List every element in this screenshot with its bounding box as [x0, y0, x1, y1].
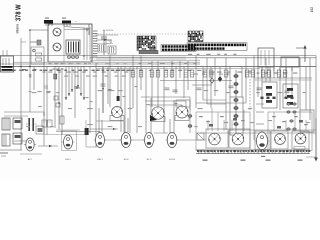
svg-text:378 W: 378 W — [13, 4, 22, 21]
svg-text:Minerva: Minerva — [15, 24, 19, 34]
svg-text:0,1 4700 1k: 0,1 4700 1k — [103, 30, 113, 32]
svg-text:ECH: ECH — [124, 159, 129, 161]
svg-text:ECH3: ECH3 — [169, 159, 176, 161]
svg-text:EM 4: EM 4 — [65, 159, 71, 161]
svg-text:EF 9: EF 9 — [147, 159, 152, 161]
svg-text:AZ 1: AZ 1 — [28, 158, 33, 161]
svg-text:EBL1: EBL1 — [97, 159, 103, 161]
svg-text:162: 162 — [310, 7, 314, 13]
